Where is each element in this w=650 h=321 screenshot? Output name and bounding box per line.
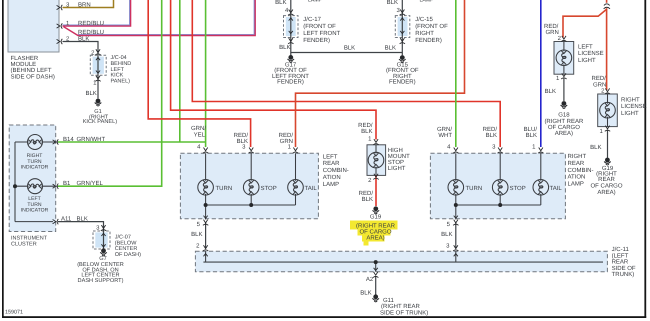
J/C-04 internal arrows <box>96 58 100 61</box>
svg-text:BLK: BLK <box>279 44 290 51</box>
wire GRN vertical to left lamp pin4 <box>205 0 207 147</box>
svg-text:GRN/WHT: GRN/WHT <box>77 136 106 143</box>
svg-text:FENDER): FENDER) <box>389 79 416 86</box>
right license light pin 2 terminal <box>605 88 610 94</box>
svg-text:OF CARGO: OF CARGO <box>548 124 580 131</box>
high mount stop light box <box>367 145 386 176</box>
svg-text:RED/: RED/ <box>234 132 249 139</box>
high mount stop light bulb <box>375 145 377 176</box>
right lamp TAIL bulb <box>533 180 549 196</box>
J/C-11 pin A2 terminal <box>374 268 378 271</box>
svg-text:RED/: RED/ <box>544 23 559 30</box>
wire BLK G17 to G15 <box>291 52 403 54</box>
left license light pin 1 terminal <box>561 73 566 79</box>
wire RED to right lamp pin3 stop <box>192 0 500 147</box>
svg-text:BLK: BLK <box>362 196 373 203</box>
svg-text:LICENSE: LICENSE <box>578 50 604 57</box>
svg-text:(FRONT OF: (FRONT OF <box>415 23 448 30</box>
svg-text:LEFT: LEFT <box>578 44 593 51</box>
svg-text:(FRONT OF: (FRONT OF <box>303 23 336 30</box>
svg-text:TURN: TURN <box>216 185 233 192</box>
svg-text:WHT: WHT <box>438 132 452 139</box>
svg-text:BLK: BLK <box>486 132 497 139</box>
svg-text:REAR: REAR <box>323 160 340 167</box>
wire GRN/YEL B1 from cluster <box>58 0 162 186</box>
svg-text:TAIL: TAIL <box>305 185 318 192</box>
svg-text:SIDE OF: SIDE OF <box>612 265 636 272</box>
svg-text:OF CARGO: OF CARGO <box>359 229 391 236</box>
svg-text:RIGHT: RIGHT <box>568 153 587 160</box>
svg-text:OF DASH): OF DASH) <box>115 252 141 258</box>
svg-text:TRUNK): TRUNK) <box>612 271 635 278</box>
wire GRN/WHT B14 from cluster <box>58 141 206 143</box>
wire RED/GRN license feed <box>563 0 607 90</box>
ground G17 <box>288 55 295 62</box>
svg-text:COMBIN-: COMBIN- <box>323 167 349 174</box>
svg-text:BLK: BLK <box>360 290 371 297</box>
svg-text:INSTRUMENT: INSTRUMENT <box>11 235 48 241</box>
svg-text:LAMP: LAMP <box>568 181 584 188</box>
right lamp TURN bulb <box>448 180 464 196</box>
svg-text:BLK: BLK <box>361 128 372 135</box>
left lamp pin 5 terminal <box>204 216 208 219</box>
left license light bulb <box>563 42 565 75</box>
J/C-17 pin 1 terminal <box>288 38 293 44</box>
left lamp TAIL bulb <box>288 180 304 196</box>
wire BLK A2 to G11 <box>375 277 377 295</box>
svg-text:J/C-15: J/C-15 <box>415 16 433 23</box>
svg-text:BLK: BLK <box>77 215 88 222</box>
wire RED to high mount stop light <box>171 0 376 140</box>
svg-text:STOP: STOP <box>261 185 277 192</box>
svg-text:DASH SUPPORT): DASH SUPPORT) <box>78 277 124 284</box>
wire BRN flasher pin3 <box>63 0 114 8</box>
wire BLK J/C-15 from top <box>401 0 403 55</box>
wire BLK left license to G18 <box>563 78 565 102</box>
J/C-04 connector <box>90 55 106 75</box>
J/C-17 pin 4 terminal <box>288 10 293 16</box>
flasher pin 3 terminal <box>57 5 63 10</box>
wire RED/GRN tail to left lamp pin1 <box>296 0 465 147</box>
right rear combination lamp box <box>430 153 565 219</box>
svg-text:LEFT FRONT: LEFT FRONT <box>303 30 340 37</box>
svg-text:159071: 159071 <box>5 310 23 316</box>
svg-text:BLK: BLK <box>545 88 556 95</box>
junction connector J/C-11 box <box>195 251 607 271</box>
svg-text:BLK: BLK <box>275 0 286 6</box>
wire BLK through J/C-04 to G1 <box>97 55 99 98</box>
J/C-17 connector <box>284 16 299 38</box>
J/C-11 pin 3 terminal <box>453 245 458 251</box>
ground G19 below high mount stop light <box>373 206 380 213</box>
svg-text:BRN: BRN <box>78 2 91 9</box>
svg-text:B14: B14 <box>63 136 74 143</box>
svg-text:LIGHT: LIGHT <box>388 165 406 172</box>
svg-text:GRN/YEL: GRN/YEL <box>77 180 104 187</box>
svg-text:B1: B1 <box>63 180 71 187</box>
ground G15 <box>399 55 406 62</box>
svg-text:SIDE OF DASH): SIDE OF DASH) <box>11 73 55 80</box>
svg-text:YEL: YEL <box>194 131 206 138</box>
left lamp STOP bulb <box>243 180 259 196</box>
svg-text:BLK: BLK <box>526 132 537 139</box>
svg-text:KICK PANEL): KICK PANEL) <box>83 118 118 125</box>
svg-text:LEFT: LEFT <box>323 153 338 160</box>
right lamp bus junction dot at TURN <box>454 203 458 207</box>
left lamp pin 1 terminal <box>293 148 298 154</box>
junction dot cluster <box>13 184 17 188</box>
svg-text:STOP: STOP <box>510 185 526 192</box>
J/C-11 pin 2 terminal <box>203 245 208 251</box>
svg-text:PANEL): PANEL) <box>111 78 131 84</box>
svg-text:LAMP: LAMP <box>420 0 435 4</box>
right license light box <box>598 94 618 127</box>
wire RED/BLU #2 blue stripe <box>78 0 254 34</box>
wire GRN/WHT to right lamp pin4 <box>455 0 457 147</box>
high mount stop light pin 2 terminal <box>373 174 378 180</box>
svg-text:ATION: ATION <box>323 174 341 181</box>
svg-text:AREA): AREA) <box>555 130 573 137</box>
wire RED to left lamp pin3 stop <box>148 0 250 147</box>
svg-text:LAMP: LAMP <box>308 0 323 4</box>
svg-text:RED/: RED/ <box>483 126 498 133</box>
J/C-15 connector <box>395 16 410 38</box>
right license light bulb <box>607 94 609 127</box>
svg-text:RED/: RED/ <box>359 190 374 197</box>
svg-text:AREA): AREA) <box>597 189 615 196</box>
svg-text:J/C-11: J/C-11 <box>612 246 630 253</box>
wire RED/BLU #2 <box>64 0 256 36</box>
svg-text:COMBIN-: COMBIN- <box>568 167 594 174</box>
svg-text:FENDER): FENDER) <box>415 37 442 44</box>
J/C-15 pin 3 terminal <box>400 10 405 16</box>
svg-text:REAR: REAR <box>568 160 585 167</box>
svg-text:HIGH: HIGH <box>388 147 403 154</box>
cluster pin B14 terminal <box>53 139 59 144</box>
svg-text:RED/BLU: RED/BLU <box>78 29 104 36</box>
wire BLK through J/C-07 to G7 <box>103 231 105 249</box>
svg-text:G19: G19 <box>370 213 382 220</box>
ground G7 <box>100 248 107 255</box>
svg-text:TAIL: TAIL <box>550 185 563 192</box>
wire RED/BLK high mount stop to G19 <box>375 175 377 206</box>
wire J/C-11 internal bus <box>203 251 603 271</box>
high mount stop light pin 1 terminal <box>373 139 378 145</box>
svg-text:RED/: RED/ <box>358 122 373 129</box>
left turn indicator lamp <box>28 179 43 194</box>
right lamp bus junction dot at STOP <box>498 203 502 207</box>
svg-text:(BEHIND LEFT: (BEHIND LEFT <box>11 67 52 74</box>
left lamp bus junction dot at TURN <box>204 203 208 207</box>
wire leads left lamp internals <box>206 153 296 219</box>
right lamp pin 4 terminal <box>453 148 458 154</box>
left lamp bus junction dot at STOP <box>249 203 253 207</box>
svg-text:A2: A2 <box>366 276 374 283</box>
svg-text:AREA): AREA) <box>366 235 384 242</box>
right lamp pin 3 terminal <box>498 148 503 154</box>
instrument cluster box <box>9 125 56 232</box>
right turn indicator lamp <box>28 135 43 150</box>
svg-text:FENDER): FENDER) <box>277 79 304 86</box>
wire leads right lamp internals <box>456 153 541 219</box>
svg-text:BLK: BLK <box>590 144 601 151</box>
svg-text:BLK: BLK <box>441 231 452 238</box>
svg-text:GRN/: GRN/ <box>437 126 452 133</box>
wire BLU/BLK to right lamp pin1 <box>540 0 542 147</box>
J/C-04 pin 2 terminal <box>95 49 100 55</box>
J/C-15 internal arrows <box>400 18 404 21</box>
svg-text:RED/: RED/ <box>592 75 607 82</box>
svg-text:FENDER): FENDER) <box>303 37 330 44</box>
svg-text:A11: A11 <box>61 215 72 222</box>
J/C-07 internal arrows <box>101 233 105 236</box>
svg-text:BLU/: BLU/ <box>524 126 538 133</box>
svg-text:RED/: RED/ <box>279 132 294 139</box>
svg-text:BLK: BLK <box>78 36 89 43</box>
flasher pin 2 terminal <box>57 39 63 44</box>
cluster pin A11 terminal <box>53 219 59 224</box>
svg-text:BLK: BLK <box>385 44 396 51</box>
ground G1 <box>95 99 102 106</box>
svg-text:INDICATOR: INDICATOR <box>21 208 49 214</box>
svg-text:RIGHT: RIGHT <box>415 30 434 37</box>
svg-text:ATION: ATION <box>568 174 586 181</box>
J/C-11 junction dot <box>374 260 378 264</box>
svg-text:G11: G11 <box>383 297 395 304</box>
left lamp pin 4 terminal <box>203 148 208 154</box>
svg-text:LAMP: LAMP <box>323 181 339 188</box>
wire RED/BLU #1 <box>63 0 131 26</box>
left lamp TURN bulb <box>198 180 214 196</box>
left rear combination lamp box <box>180 153 318 219</box>
left license light pin 2 terminal <box>561 36 566 42</box>
wire BLK left lamp pin5 to J/C-11 <box>205 223 207 249</box>
svg-text:TURN: TURN <box>466 185 483 192</box>
wire BLK right license to G19 <box>607 130 609 158</box>
left license light box <box>554 42 574 75</box>
J/C-15 pin 1 terminal <box>400 38 405 44</box>
svg-text:OF CARGO: OF CARGO <box>590 183 622 190</box>
J/C-07 pin 3 terminal <box>101 225 106 231</box>
J/C-04 pin 1 terminal <box>95 76 100 82</box>
svg-text:GRN/: GRN/ <box>191 125 206 132</box>
svg-text:MOUNT: MOUNT <box>388 153 410 160</box>
wire BLK flasher pin2 to J/C-04 <box>63 42 99 56</box>
ground G18 <box>561 101 568 108</box>
flasher module box <box>8 0 59 52</box>
left lamp pin 3 terminal <box>249 148 254 154</box>
border frame <box>2 0 4 318</box>
wire BLK right lamp pin5 to J/C-11 <box>455 223 457 249</box>
svg-text:SIDE OF TRUNK): SIDE OF TRUNK) <box>380 309 428 316</box>
svg-text:(RIGHT REAR: (RIGHT REAR <box>356 222 396 229</box>
svg-text:(RIGHT REAR: (RIGHT REAR <box>544 118 584 125</box>
inline connector break top right <box>604 3 610 8</box>
svg-text:FLASHER: FLASHER <box>11 55 39 62</box>
wire RED/BLU #1 blue stripe <box>63 0 130 25</box>
svg-text:(RIGHT REAR: (RIGHT REAR <box>381 303 421 310</box>
right lamp pin 5 terminal <box>454 216 458 219</box>
svg-text:RED/BLU: RED/BLU <box>78 20 104 27</box>
svg-text:MODULE: MODULE <box>11 61 37 68</box>
svg-text:LIGHT: LIGHT <box>621 110 639 117</box>
svg-text:STOP: STOP <box>388 159 404 166</box>
cluster bus wire <box>15 142 58 222</box>
svg-text:REAR: REAR <box>598 176 615 183</box>
svg-text:BLK: BLK <box>387 0 398 6</box>
svg-text:BLK: BLK <box>85 90 96 97</box>
svg-text:(LEFT: (LEFT <box>612 252 629 259</box>
svg-text:G7: G7 <box>99 256 106 262</box>
svg-text:INDICATOR: INDICATOR <box>21 165 49 171</box>
ground G11 <box>372 294 379 301</box>
svg-text:LICENSE: LICENSE <box>621 103 647 110</box>
svg-text:LIGHT: LIGHT <box>578 57 596 64</box>
svg-text:G18: G18 <box>558 112 570 119</box>
svg-text:REAR: REAR <box>612 259 629 266</box>
right lamp STOP bulb <box>492 180 508 196</box>
svg-text:GRN: GRN <box>546 29 559 36</box>
svg-text:RIGHT: RIGHT <box>621 97 640 104</box>
right lamp pin 1 terminal <box>538 148 543 154</box>
wire GRN vertical upper feed <box>179 0 181 142</box>
right license light pin 1 terminal <box>605 126 610 132</box>
svg-text:BLK: BLK <box>191 231 202 238</box>
svg-text:J/C-17: J/C-17 <box>303 16 321 23</box>
svg-text:BLK: BLK <box>344 45 355 52</box>
ground G19 right <box>604 158 611 165</box>
wire BLK J/C-17 from top <box>290 0 292 55</box>
flasher pin 1 terminal <box>57 23 63 28</box>
wire BLK A11 from cluster to J/C-07 <box>58 222 104 231</box>
J/C-17 internal arrows <box>289 18 293 21</box>
J/C-07 connector <box>93 231 110 249</box>
cluster pin B1 terminal <box>53 184 59 189</box>
svg-text:CLUSTER: CLUSTER <box>11 242 37 248</box>
